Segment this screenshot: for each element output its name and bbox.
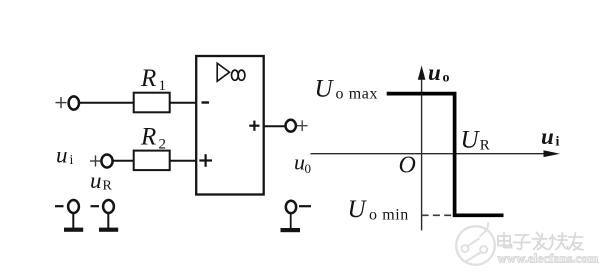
label R1 — [140, 65, 166, 94]
svg-text:0: 0 — [305, 161, 312, 176]
char zi — [516, 234, 529, 236]
horizontal axis arrowhead — [544, 150, 561, 157]
watermark logo connector circle B — [480, 246, 487, 253]
ground 1 bar — [64, 228, 83, 232]
terminal plus sign input 1 — [56, 97, 67, 108]
terminal circle input 2 — [101, 155, 112, 168]
ground 3 terminal circle — [286, 201, 296, 213]
terminal circle input 1 — [69, 96, 79, 109]
svg-text:2: 2 — [159, 137, 167, 153]
watermark logo cable line lower — [466, 252, 481, 261]
char you — [569, 236, 583, 238]
ground 1 terminal circle — [68, 200, 79, 213]
svg-text:R: R — [103, 179, 113, 194]
resistor R2 — [134, 151, 170, 171]
watermark text elecfans chinese (drawn strokes: dian zi fa shao you) — [498, 233, 583, 251]
svg-text:O: O — [399, 153, 416, 179]
wire R2 to op-amp — [170, 160, 197, 162]
label uR (reference input) — [90, 168, 113, 194]
label UR (threshold) — [461, 127, 490, 154]
ground 2 minus sign — [91, 205, 100, 207]
char dian — [498, 236, 510, 246]
svg-text:R: R — [480, 138, 490, 154]
svg-text:o: o — [443, 71, 450, 86]
wire input1 to R1 — [79, 102, 134, 104]
svg-text:u: u — [90, 168, 102, 193]
terminal circle output — [286, 120, 296, 132]
label ui (left input) — [56, 143, 74, 169]
label uo (vertical axis) — [428, 60, 450, 86]
svg-text:www.elecfans.com: www.elecfans.com — [498, 252, 599, 266]
op-amp non-inverting input plus — [199, 154, 212, 167]
watermark logo cable line upper — [468, 238, 480, 246]
op-amp inverting input minus — [202, 101, 210, 103]
svg-text:i: i — [70, 153, 74, 168]
svg-text:o max: o max — [336, 86, 379, 103]
graph vertical axis uo — [421, 77, 423, 230]
label u0 (output node near graph) — [294, 150, 311, 177]
svg-text:R: R — [140, 65, 156, 92]
label R2 — [140, 124, 166, 153]
svg-text:u: u — [56, 143, 68, 168]
wire R1 to op-amp — [170, 102, 197, 104]
ground 3 minus sign — [299, 205, 311, 207]
ground 3 stem wire — [290, 214, 292, 230]
wire op-amp output — [264, 125, 286, 127]
ground 1 stem wire — [72, 213, 74, 229]
char shao — [552, 235, 554, 245]
ground 2 stem wire — [107, 213, 109, 229]
svg-text:i: i — [556, 135, 560, 150]
wire input2 to R2 — [113, 160, 134, 162]
svg-text:1: 1 — [159, 78, 167, 94]
ground 2 terminal circle — [103, 200, 114, 213]
ground 3 bar — [281, 228, 301, 232]
terminal plus sign output — [297, 120, 308, 131]
resistor R1 — [134, 93, 170, 113]
watermark logo tail — [480, 222, 489, 236]
label Uo min — [348, 196, 409, 224]
graph horizontal axis ui — [311, 153, 546, 155]
svg-text:U: U — [315, 76, 335, 103]
op-amp U1 body — [196, 56, 264, 195]
ground 1 minus sign — [55, 205, 64, 207]
watermark logo circle — [456, 226, 495, 265]
svg-text:U: U — [348, 196, 368, 223]
vertical axis arrowhead — [418, 66, 426, 80]
transfer curve step — [387, 94, 504, 216]
svg-text:u: u — [294, 150, 305, 175]
ground 2 bar — [99, 228, 118, 232]
label ui (horizontal axis) — [541, 124, 560, 150]
svg-text:U: U — [461, 127, 481, 154]
svg-text:R: R — [140, 124, 156, 151]
label Uo max — [315, 76, 379, 103]
char fa — [533, 238, 547, 240]
op-amp gain triangle — [217, 63, 229, 81]
svg-text:u: u — [428, 60, 441, 85]
svg-text:o min: o min — [369, 207, 409, 224]
op-amp infinity symbol — [232, 70, 245, 80]
terminal plus sign input 2 — [90, 155, 101, 166]
dashed level line to Uo min — [422, 214, 452, 216]
svg-text:u: u — [541, 124, 554, 149]
op-amp output plus (inside box) — [249, 121, 259, 131]
watermark logo connector circle A — [462, 245, 469, 252]
